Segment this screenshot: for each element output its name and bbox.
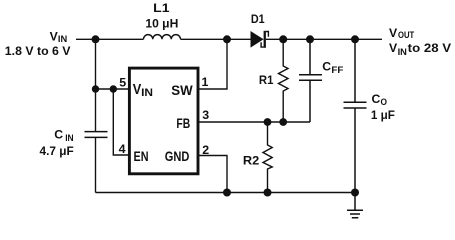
wire SW to top rail: [198, 39, 227, 89]
svg-text:OUT: OUT: [398, 30, 415, 40]
value 1 uF: [371, 108, 395, 122]
pin label FB inside: [176, 116, 190, 132]
svg-text:2: 2: [202, 143, 209, 157]
svg-text:IN: IN: [58, 34, 68, 44]
value VIN to 28 V: [389, 41, 452, 57]
wire left vertical upper: [95, 39, 97, 131]
value 4.7 uF: [40, 144, 74, 158]
wire FB horizontal: [198, 121, 310, 123]
svg-text:C: C: [54, 127, 63, 141]
node SW junction: [223, 35, 231, 43]
pin number 5: [119, 76, 126, 90]
wire top rail input segment: [76, 38, 144, 40]
label R1: [259, 73, 274, 87]
label R2: [243, 154, 260, 168]
svg-text:IN: IN: [141, 87, 153, 99]
wire top rail middle segment: [181, 38, 251, 40]
value 1.8 V to 6 V: [5, 44, 72, 58]
label VOUT terminal: [389, 26, 415, 40]
capacitor CO: [344, 39, 367, 192]
svg-text:GND: GND: [165, 149, 190, 165]
label CFF: [322, 60, 344, 76]
node R1 top junction: [279, 35, 287, 43]
wire GND pin to bottom rail: [198, 156, 227, 193]
resistor R2: [263, 122, 272, 193]
label CIN: [54, 127, 74, 143]
pin number 3: [202, 108, 209, 122]
svg-text:R2: R2: [243, 154, 260, 168]
op-amp U1 regulator outline: [129, 68, 198, 174]
node VIN junction: [92, 35, 100, 43]
node R1 bottom junction: [279, 118, 287, 126]
node CO top junction: [351, 35, 359, 43]
node pin5 tap junction: [92, 85, 99, 92]
pin number 1: [202, 75, 209, 89]
pin label EN inside: [134, 149, 149, 165]
node R2 bottom junction: [264, 189, 272, 197]
label CO: [372, 92, 388, 107]
svg-text:O: O: [381, 97, 388, 107]
pin label GND inside: [165, 149, 190, 165]
node CO bottom junction: [351, 189, 359, 197]
svg-text:10 μH: 10 μH: [145, 17, 178, 31]
node GND rail junction: [223, 189, 231, 197]
ground: [347, 193, 363, 218]
svg-text:3: 3: [202, 108, 209, 122]
svg-text:R1: R1: [259, 73, 274, 87]
wire EN vertical: [113, 89, 129, 155]
label L1: [153, 1, 170, 15]
svg-text:1 μF: 1 μF: [371, 108, 395, 122]
svg-text:C: C: [322, 60, 331, 74]
pin number 2: [202, 143, 209, 157]
node CFF top junction: [306, 35, 314, 43]
svg-text:4: 4: [119, 142, 126, 156]
diode D1: [251, 31, 269, 48]
svg-text:V: V: [133, 81, 142, 98]
node R2 top junction: [264, 118, 272, 126]
pin number 4: [119, 142, 126, 156]
capacitor CFF: [299, 39, 322, 122]
svg-text:C: C: [372, 92, 381, 106]
pin label SW inside: [171, 83, 193, 99]
wire VIN to pin5: [96, 88, 130, 90]
svg-text:5: 5: [119, 76, 126, 90]
svg-text:IN: IN: [398, 47, 408, 57]
svg-text:to 28 V: to 28 V: [408, 41, 452, 55]
inductor L1: [144, 35, 181, 40]
capacitor CIN: [85, 132, 108, 138]
resistor R1: [279, 39, 289, 122]
label VIN terminal: [50, 29, 68, 44]
wire bottom rail: [96, 192, 356, 194]
svg-text:1.8 V to 6 V: 1.8 V to 6 V: [5, 44, 72, 58]
svg-text:4.7 μF: 4.7 μF: [40, 144, 74, 158]
svg-text:D1: D1: [251, 12, 265, 26]
label D1: [251, 12, 265, 26]
svg-text:1: 1: [202, 75, 209, 89]
svg-text:V: V: [389, 26, 398, 40]
svg-text:FB: FB: [176, 116, 190, 132]
svg-text:SW: SW: [171, 83, 193, 99]
svg-text:L1: L1: [153, 1, 170, 15]
wire top rail output segment: [266, 38, 382, 40]
node EN tap junction: [110, 85, 117, 92]
svg-text:IN: IN: [65, 133, 74, 143]
wire left vertical lower: [95, 138, 97, 193]
svg-text:FF: FF: [331, 65, 343, 75]
svg-text:EN: EN: [134, 149, 149, 165]
value 10 uH: [145, 17, 178, 31]
pin label VIN inside: [133, 81, 153, 99]
